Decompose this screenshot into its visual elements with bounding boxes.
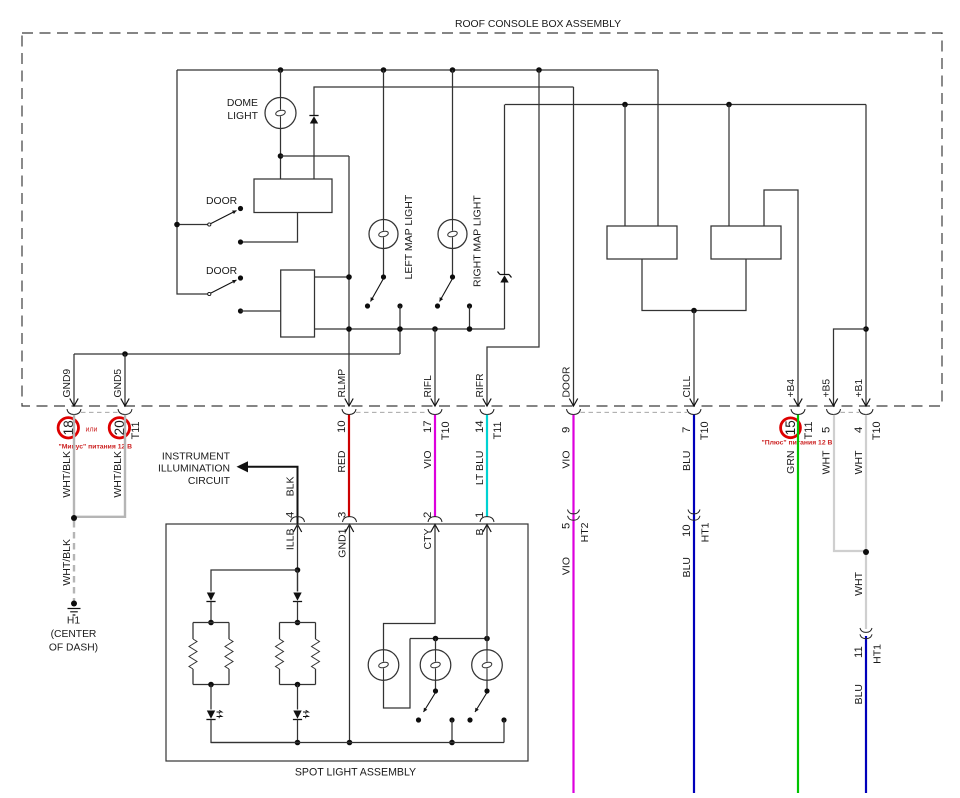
svg-text:T11: T11 (492, 422, 504, 440)
svg-text:ILLB: ILLB (285, 529, 297, 551)
arrow into connector GND5 (121, 399, 129, 407)
wire rail 349 down (348, 156, 350, 406)
svg-text:HT1: HT1 (872, 644, 884, 664)
svg-text:LEFT MAP LIGHT: LEFT MAP LIGHT (403, 194, 415, 279)
connector pin arc spot 2 (428, 517, 442, 522)
wire WHT/BLK pin20 (75, 415, 125, 517)
svg-text:5: 5 (561, 523, 573, 529)
connector pin arc CILL (687, 409, 701, 414)
wire BLU CILL (693, 415, 695, 793)
svg-text:SPOT LIGHT ASSEMBLY: SPOT LIGHT ASSEMBLY (295, 767, 416, 779)
resistor right A (276, 639, 284, 669)
wire dome lamp top (280, 70, 282, 98)
wire LT BLU RIFR (486, 415, 488, 517)
junction bus rifl (432, 326, 438, 332)
inline connector HT1 cill (688, 510, 700, 521)
contact left map on (397, 303, 402, 308)
junction bus leftmap (397, 326, 403, 332)
right map lamp (438, 220, 467, 249)
contact right off (467, 717, 472, 722)
svg-text:BLU: BLU (681, 451, 693, 471)
contact door1 upper (238, 206, 243, 211)
svg-text:5: 5 (821, 427, 833, 433)
wire top bus (177, 69, 658, 71)
left map lamp (369, 220, 398, 249)
svg-text:LIGHT: LIGHT (227, 111, 258, 122)
svg-text:14: 14 (474, 420, 486, 433)
junction b729 (726, 102, 732, 108)
connector housing link B5-B1 (841, 411, 860, 413)
wire plus b1 drop (865, 105, 867, 407)
wire dome lamp bottom (280, 129, 282, 180)
contact right map off (435, 303, 440, 308)
junction right common (484, 688, 489, 693)
connector pin arc +B1 (859, 409, 873, 414)
ground symbol H1 (68, 609, 81, 616)
svg-text:RED: RED (336, 450, 348, 473)
right map switch blade (440, 279, 453, 302)
junction bus rlmp (346, 326, 352, 332)
connector pin arc DOOR (567, 409, 581, 414)
wire left to led (210, 685, 212, 710)
svg-text:9: 9 (561, 427, 573, 433)
wire right resistor frame (280, 623, 316, 685)
door switch 2 blade (211, 280, 237, 293)
roof console box dashed border (22, 33, 942, 406)
svg-text:GND9: GND9 (62, 369, 73, 398)
svg-text:LT BLU: LT BLU (474, 451, 486, 486)
contact right map on (467, 303, 472, 308)
svg-text:2: 2 (422, 512, 434, 518)
svg-text:DOME: DOME (227, 98, 258, 109)
svg-text:15: 15 (783, 420, 798, 435)
spot lamp right (472, 650, 503, 681)
wire door drop (573, 87, 575, 406)
svg-text:T10: T10 (871, 422, 883, 441)
wire right map feed (452, 70, 454, 220)
wire diode top (314, 87, 574, 116)
wire b625 drop (624, 105, 626, 227)
svg-text:T11: T11 (803, 422, 815, 440)
ground terminal dot (71, 601, 77, 607)
arrow into connector RLMP (345, 399, 353, 407)
wire box2 out right (315, 276, 350, 278)
wire diode bottom (313, 124, 315, 180)
spot lamp middle (420, 650, 451, 681)
connector pin arc spot 4 (291, 517, 305, 522)
wire spot ground bus (211, 742, 504, 744)
junction rail mid (433, 636, 439, 642)
wire rifr path (487, 70, 539, 406)
junction rail right (484, 636, 490, 642)
diode dome (309, 116, 318, 124)
zener diode (498, 272, 512, 283)
svg-text:DOOR: DOOR (562, 367, 573, 398)
arrow into connector DOOR (569, 399, 577, 407)
junction rifr tap (536, 67, 542, 73)
svg-text:OF DASH): OF DASH) (49, 643, 98, 654)
left map switch blade (371, 279, 384, 302)
spot switch right blade (475, 693, 487, 713)
pivot door switch 1 (208, 223, 211, 226)
svg-text:VIO: VIO (561, 451, 573, 469)
junction bus mid (449, 740, 455, 746)
svg-text:ROOF CONSOLE BOX ASSEMBLY: ROOF CONSOLE BOX ASSEMBLY (455, 19, 621, 30)
wire gnd9 drop (73, 354, 75, 406)
arrow into connector +B4 (794, 399, 802, 407)
connector pin arc 20 (118, 409, 132, 414)
junction illb split (295, 567, 301, 573)
svg-text:CILL: CILL (682, 375, 693, 397)
box relay right 1 (607, 226, 677, 259)
wire right diode to split (297, 602, 299, 623)
svg-text:HT1: HT1 (700, 522, 712, 542)
wire mid contact drop (451, 720, 453, 743)
wire dome return to rail (281, 155, 350, 157)
wire left rail (177, 70, 208, 294)
junction b625 (622, 102, 628, 108)
svg-text:WHT: WHT (853, 450, 865, 474)
connector pin arc +B5 (827, 409, 841, 414)
diode spot right (293, 593, 302, 602)
connector pin arc +B4 (791, 409, 805, 414)
wire relay1 out (642, 259, 694, 311)
dome lamp (265, 98, 296, 129)
wire VIO DOOR (572, 415, 574, 793)
svg-text:H1: H1 (67, 616, 80, 627)
svg-text:VIO: VIO (561, 557, 573, 575)
svg-text:INSTRUMENT: INSTRUMENT (162, 452, 231, 463)
svg-text:T10: T10 (699, 422, 711, 441)
junction left resistor top (208, 620, 214, 626)
arrow into spot box pin 2 (431, 525, 439, 533)
connector housing link T10 RLMP-RIFL (356, 411, 428, 413)
wire left led to bus (211, 720, 298, 743)
connector pin arc spot 3 (343, 517, 357, 522)
svg-text:или: или (86, 427, 98, 434)
svg-text:RLMP: RLMP (337, 369, 348, 398)
wire left resistor frame (193, 623, 229, 685)
svg-text:4: 4 (285, 512, 297, 518)
svg-text:BLK: BLK (285, 477, 297, 497)
arrow into connector CILL (690, 399, 698, 407)
arrow into connector RIFL (431, 399, 439, 407)
wire right led to bus (297, 720, 299, 743)
wire b729 drop (728, 105, 730, 227)
wire right map lamp bottom (452, 249, 454, 278)
wire illb branch left (211, 570, 298, 592)
svg-text:17: 17 (422, 420, 434, 433)
wire relay2 out (694, 259, 746, 311)
junction right map common (450, 274, 455, 279)
junction dome top (278, 67, 284, 73)
wire rifl drop (434, 329, 436, 406)
arrow into spot box pin 4 (293, 525, 301, 533)
resistor right B (312, 639, 320, 669)
wire b5 branch (834, 329, 867, 406)
arrow to instrument illumination circuit (237, 461, 298, 524)
box relay right 2 (711, 226, 781, 259)
junction wht merge (863, 549, 869, 555)
wire left map lamp bottom (383, 249, 385, 278)
svg-text:ILLUMINATION: ILLUMINATION (158, 464, 230, 475)
wire right diode drop (297, 570, 299, 592)
svg-text:GND5: GND5 (113, 369, 124, 398)
junction door1 rail (174, 222, 180, 228)
wire spot rail (410, 638, 487, 640)
wire RED RLMP (348, 415, 350, 517)
wire plus line (505, 104, 866, 106)
wire WHT +B1 (865, 415, 867, 629)
wire right to led (297, 685, 299, 710)
svg-text:VIO: VIO (422, 451, 434, 469)
junction right resistor bottom (295, 682, 301, 688)
connector pin arc spot 1 (480, 517, 494, 522)
arrow into spot box pin 1 (483, 525, 491, 533)
svg-text:GND1: GND1 (337, 528, 349, 557)
connector pin arc RIFL (428, 409, 442, 414)
arrow into connector RIFR (483, 399, 491, 407)
wire spot right feed (486, 639, 488, 650)
svg-text:4: 4 (853, 427, 865, 433)
svg-text:BLU: BLU (853, 684, 865, 704)
svg-text:"Минус" питания 12 В: "Минус" питания 12 В (59, 444, 133, 451)
junction right map top (450, 67, 456, 73)
contact mid on (449, 717, 454, 722)
wire cill drop (693, 311, 695, 407)
wire ground bus (315, 328, 505, 330)
junction b5 split (863, 326, 869, 332)
svg-text:+B4: +B4 (786, 379, 797, 398)
diode spot left (206, 593, 215, 602)
svg-text:WHT/BLK: WHT/BLK (61, 539, 73, 586)
contact door2 upper (238, 275, 243, 280)
resistor left B (225, 639, 233, 669)
red circle pin 15 (781, 418, 801, 438)
contact left map off (365, 303, 370, 308)
svg-text:WHT: WHT (821, 450, 833, 474)
arrow into spot box pin 3 (345, 525, 353, 533)
box door control (281, 270, 315, 337)
wire BLU to bottom (865, 636, 867, 793)
svg-text:WHT/BLK: WHT/BLK (112, 451, 124, 498)
wire bus end drop (657, 70, 659, 226)
red circle pin 18 (58, 418, 78, 438)
junction gnd5 (122, 351, 128, 357)
connector housing link DOOR-CILL (581, 411, 688, 413)
wire zener riser (504, 105, 506, 330)
svg-text:GRN: GRN (785, 451, 797, 474)
junction box2 out (346, 274, 352, 280)
svg-text:HT2: HT2 (579, 522, 591, 542)
svg-text:1: 1 (474, 512, 486, 518)
wire ground line (74, 353, 400, 355)
resistor left A (189, 639, 197, 669)
wire spot left return (384, 639, 411, 709)
svg-text:WHT/BLK: WHT/BLK (61, 451, 73, 498)
arrow into connector +B5 (829, 399, 837, 407)
wire VIO RIFL (434, 415, 436, 517)
wire right map contact riser (469, 306, 471, 329)
wire door2 to box2 (241, 310, 281, 312)
svg-text:3: 3 (337, 512, 349, 518)
connector pin arc 18 (67, 409, 81, 414)
box spot light assembly (166, 524, 528, 761)
wire spot mid feed (435, 639, 437, 650)
svg-text:BLU: BLU (681, 557, 693, 577)
wire spot right bottom (486, 680, 488, 691)
junction bus gnd1 (347, 740, 353, 746)
svg-text:T11: T11 (130, 422, 142, 440)
svg-text:B: B (474, 529, 486, 536)
wire box1 bottom riser (241, 213, 298, 243)
contact door1 lower (238, 239, 243, 244)
svg-text:7: 7 (681, 427, 693, 433)
arrow into connector +B1 (862, 399, 870, 407)
svg-text:+B5: +B5 (822, 379, 833, 398)
junction left resistor bottom (208, 682, 214, 688)
wire illb drop (297, 525, 299, 592)
svg-text:DOOR: DOOR (206, 196, 238, 207)
svg-text:RIGHT MAP LIGHT: RIGHT MAP LIGHT (472, 195, 484, 287)
junction left map common (381, 274, 386, 279)
wire left diode to split (210, 602, 212, 623)
svg-text:10: 10 (681, 524, 693, 537)
wire B drop (486, 525, 488, 639)
junction mid common (433, 688, 438, 693)
junction left map top (381, 67, 387, 73)
door switch 1 blade (211, 211, 237, 224)
junction whtblk merge (71, 515, 77, 521)
svg-text:DOOR: DOOR (206, 266, 238, 277)
junction right resistor top (295, 620, 301, 626)
arrow into connector GND9 (70, 399, 78, 407)
connector pin arc RIFR (480, 409, 494, 414)
inline connector HT1 b1 (860, 628, 872, 639)
wire WHT/BLK pin18 (73, 415, 75, 518)
spot switch middle blade (424, 693, 436, 713)
contact mid off (416, 717, 421, 722)
pivot door switch 2 (208, 292, 211, 295)
inline connector HT2 (568, 510, 580, 521)
svg-text:10: 10 (336, 420, 348, 433)
LED left (206, 710, 222, 719)
wire left map feed (383, 70, 385, 220)
svg-text:T10: T10 (440, 422, 452, 441)
contact door2 lower (238, 308, 243, 313)
svg-text:+B1: +B1 (854, 379, 865, 398)
wire b4 step (764, 190, 798, 406)
wire spot mid bottom (435, 680, 437, 691)
connector pin arc RLMP (342, 409, 356, 414)
junction dome return (278, 153, 284, 159)
wire left map contact riser (399, 306, 401, 354)
spot lamp left (368, 650, 399, 681)
svg-text:CTY: CTY (422, 529, 434, 550)
box dome control (254, 179, 332, 213)
connector housing link T11 18-20 (81, 411, 118, 413)
wire cty path (384, 525, 436, 650)
wire gnd1 drop (349, 525, 351, 743)
wire door1 branch (177, 224, 208, 226)
svg-text:WHT: WHT (853, 571, 865, 595)
wire gnd5 drop (124, 354, 126, 406)
wire right contact drop (503, 720, 505, 743)
red circle pin 20 (109, 418, 129, 438)
wire WHT/BLK dashed to H1 (73, 521, 75, 601)
svg-text:CIRCUIT: CIRCUIT (188, 476, 231, 487)
junction cill (691, 308, 697, 314)
wire WHT +B5 (834, 415, 864, 551)
svg-text:(CENTER: (CENTER (51, 629, 97, 640)
wire GRN +B4 (797, 415, 799, 793)
svg-text:11: 11 (853, 646, 865, 658)
svg-text:RIFL: RIFL (423, 375, 434, 398)
svg-text:RIFR: RIFR (475, 373, 486, 397)
junction bus rightmap (467, 326, 473, 332)
contact right on (501, 717, 506, 722)
junction bus illb (295, 740, 301, 746)
LED right (293, 710, 309, 719)
